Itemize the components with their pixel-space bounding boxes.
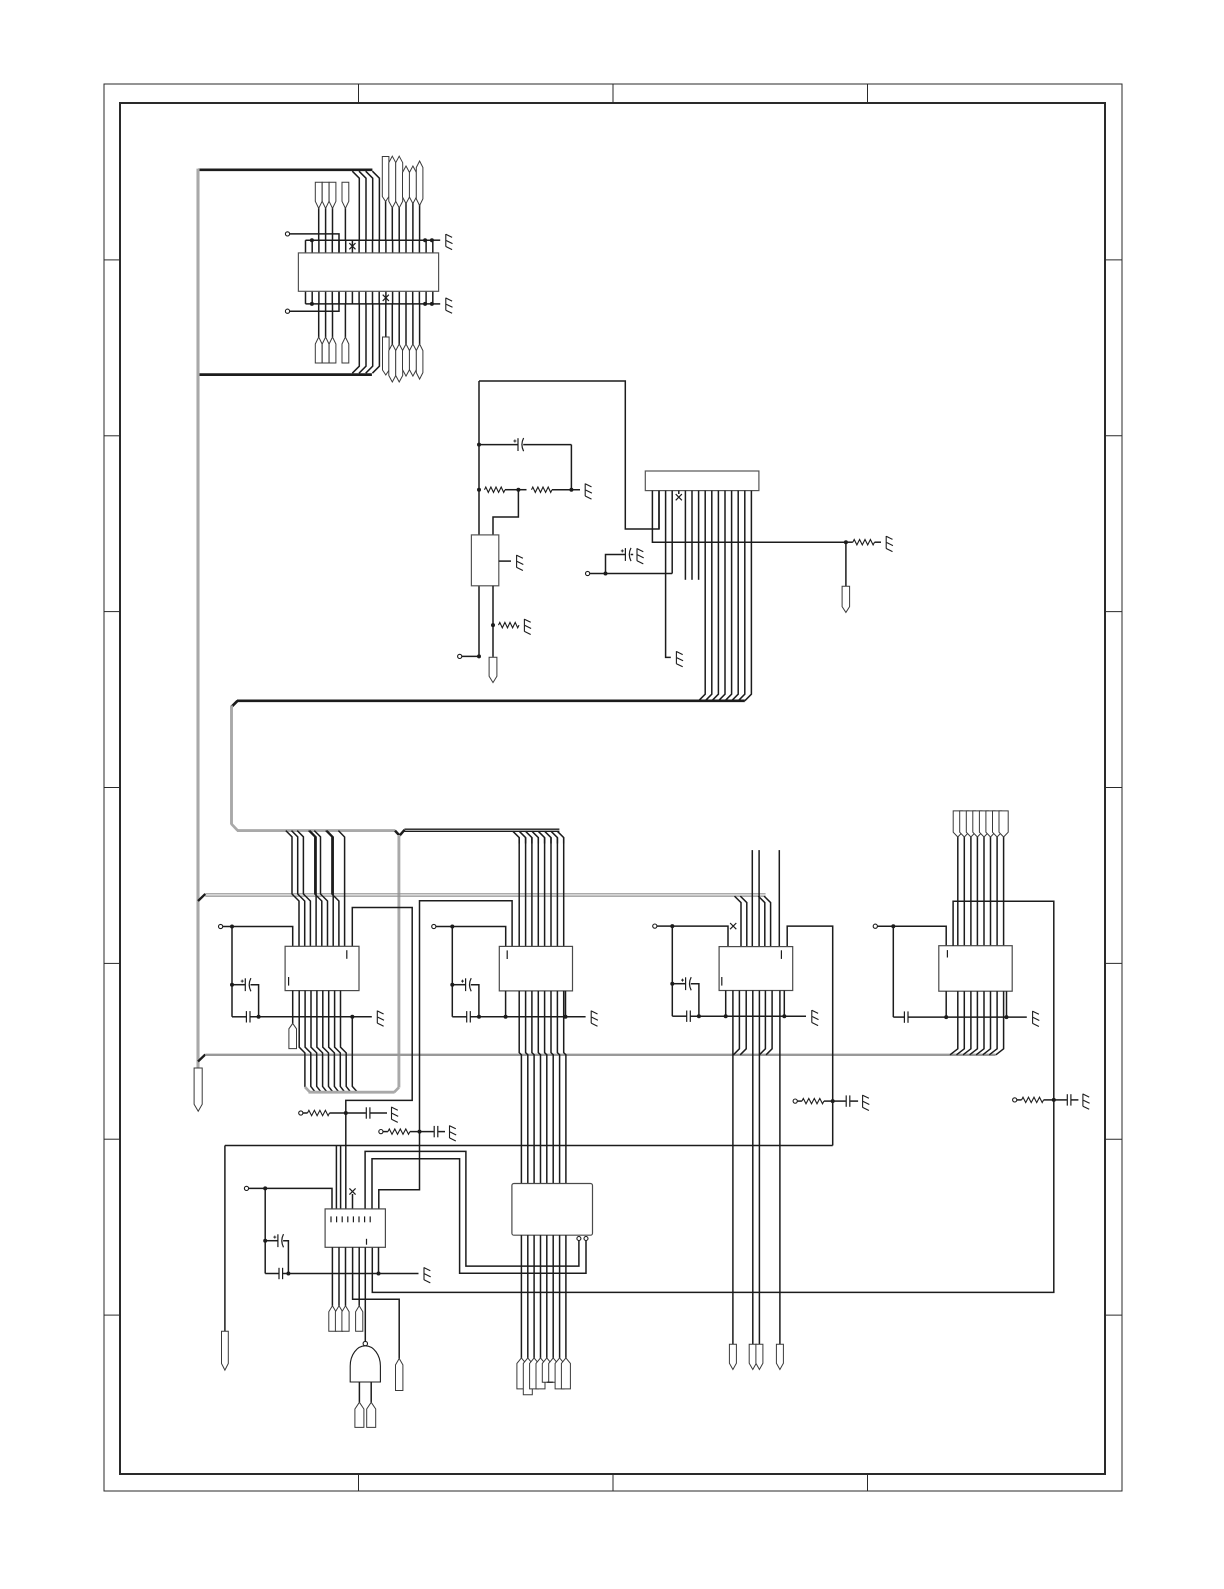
IC U4 <box>719 947 793 991</box>
wire Q1 emitter down <box>492 586 494 656</box>
no-connect X marks at U1 <box>349 243 389 301</box>
flag on R4 net <box>842 542 850 612</box>
terminal T7 <box>653 924 673 928</box>
capacitor C14 polarized <box>263 1234 288 1273</box>
U4 pin1 tick <box>722 950 782 985</box>
CN1 pin1 wire long <box>652 491 846 543</box>
transistor Q1 block <box>471 535 498 586</box>
wires connector flags to U8 <box>958 837 1004 946</box>
wire main riser <box>478 381 480 656</box>
pull-up wire block D <box>891 924 946 946</box>
bus segment top horizontal <box>198 168 372 171</box>
data bus vertical <box>230 706 233 825</box>
terminal T4 with capacitor C2 and ground <box>586 548 673 576</box>
CN1 pin5 no-connect <box>676 491 682 501</box>
bus fan-in wires from U1 bottom pins <box>352 304 379 373</box>
wire U6 to gate <box>364 1247 366 1341</box>
capacitor C1 row <box>477 438 571 490</box>
RC filter 2 (R6 C11) <box>379 1125 456 1141</box>
output flags below U1 (left group) <box>315 304 349 363</box>
data bus horizontal lower <box>237 829 395 832</box>
connector CN1 <box>645 471 759 491</box>
terminal T1 wire to U1 top <box>285 232 339 253</box>
flags below U5 <box>517 1358 571 1395</box>
U1 top pin rail with ground <box>306 234 453 250</box>
capacitor C8 and ground rail block C <box>672 1010 818 1026</box>
net h1 long horizontal <box>225 1145 833 1147</box>
off-page flag at bus spine bottom <box>194 1068 202 1111</box>
net U4 to U6 loop <box>787 926 833 1145</box>
U8 bottom pins to gray bus <box>950 991 1004 1055</box>
wires bus to U2 top pins <box>286 831 345 947</box>
capacitor C9 and ground rail block D <box>893 1011 1039 1027</box>
U6 interior pin ticks <box>331 1216 370 1244</box>
net U2 to filter loop <box>346 908 412 1114</box>
net U8 wrap loop <box>372 901 1054 1292</box>
pull-up wire block C <box>670 924 728 947</box>
U5 bottom wires <box>521 1235 566 1358</box>
CN1 stub pins <box>685 491 698 580</box>
IC U1 <box>298 253 438 291</box>
capacitor C7 polarized <box>670 977 699 1016</box>
capacitor C5 polarized <box>450 978 479 1017</box>
no-connect X at U6 <box>349 1188 355 1209</box>
U6 bottom wires to flags <box>332 1247 359 1306</box>
U3 pin1 tick <box>506 950 508 959</box>
flag below U2 pin <box>289 991 297 1049</box>
IC U3 <box>499 946 572 991</box>
data bus corner <box>232 701 238 707</box>
U3 rail pins <box>506 991 566 1017</box>
U8 rail pins <box>946 991 1006 1017</box>
CN1 pin3 wire to ground <box>666 491 684 667</box>
no-connect X block C <box>730 923 736 929</box>
gray net lower <box>205 1054 995 1056</box>
wire R junction to Q1 <box>493 490 518 535</box>
CN1 bus pins into data bus <box>699 491 752 701</box>
bus fan-out wires to U1 top pins <box>352 171 379 240</box>
U1 bottom pin rail with ground <box>306 298 453 314</box>
data bus corner lower <box>232 824 238 831</box>
wires bus pair to U3 top <box>519 838 564 947</box>
capacitor C6 and ground rail block B <box>452 1011 598 1027</box>
terminal T2 wire to U1 bottom <box>285 291 339 313</box>
U2 pin1 tick <box>289 950 347 985</box>
U5 inverted outputs <box>577 1237 588 1241</box>
RC filter 4 (R8 C13) <box>1013 1094 1090 1110</box>
U4 rail pins <box>726 991 785 1017</box>
IC U2 <box>285 946 359 990</box>
flag below Q1 <box>489 656 497 683</box>
wire block A cap branch <box>231 927 233 1017</box>
CN1 pin4 wire <box>671 491 673 574</box>
resistor R4 with ground <box>844 536 893 552</box>
RC filter 1 (R5 C10) <box>299 1107 399 1123</box>
net h1 left leg to flag <box>222 1146 229 1371</box>
bus pair to U3 <box>404 829 559 831</box>
pull-up wire block B <box>450 925 505 947</box>
input flags above U1 (left group) <box>315 182 349 240</box>
U6 gnd rail pin <box>378 1247 380 1273</box>
flags below U4 nets <box>729 1344 783 1369</box>
bus riser gray <box>397 835 400 1088</box>
Q1 tab ground <box>499 555 524 571</box>
capacitor C15 and ground rail U6 <box>265 1267 431 1283</box>
wires U2 bottom to loop bus <box>299 991 357 1093</box>
U8 pin1 tick <box>946 950 948 957</box>
capacitor C4 and ground rail block A <box>232 1011 384 1027</box>
drawing frame with zone ticks <box>104 84 1122 1491</box>
capacitor C3 polarized <box>230 978 259 1017</box>
pull-up wire U6 <box>263 1186 332 1209</box>
terminal T9 <box>244 1186 265 1190</box>
net U6 to flag right <box>353 1247 403 1390</box>
data bus horizontal <box>237 699 745 702</box>
terminal T3 <box>458 654 481 658</box>
IC U8 <box>939 946 1012 992</box>
resistor R3 with ground <box>491 619 531 635</box>
signal flags above U1 (right group) <box>382 156 423 240</box>
terminal T6 <box>432 924 453 928</box>
U1 pin stubs <box>306 240 433 304</box>
bus entry stub to lower gray net <box>198 1055 205 1062</box>
flags below gate G1 <box>355 1382 376 1427</box>
RC2 feed net <box>420 901 513 1132</box>
net h1 drops to U6 <box>336 1146 340 1209</box>
RC filter 3 (R7 C12) <box>793 1095 869 1111</box>
CN1 pin2 wire <box>658 491 660 529</box>
wire U6 cap branch <box>264 1188 266 1273</box>
net U5 out2 staple <box>372 1159 586 1274</box>
wire V+ riser top <box>479 381 659 529</box>
net RC1 to U6 <box>345 1113 347 1209</box>
wires into U4 top <box>735 850 780 947</box>
IC U5 <box>512 1184 593 1236</box>
wires U3 bottom to U5 <box>519 991 566 1184</box>
connector flags above U8 <box>953 811 1008 837</box>
gray net pair upper <box>205 894 765 896</box>
loop bus gray <box>305 1087 399 1092</box>
net RC2 to U6 <box>379 1132 420 1209</box>
NAND gate G1 <box>350 1341 380 1382</box>
terminal T8 <box>873 924 893 928</box>
bus spine vertical left <box>196 169 199 1068</box>
flags below U6 <box>329 1306 363 1332</box>
resistors R1 R2 row with ground <box>477 484 592 500</box>
wire block B cap branch <box>451 927 453 1017</box>
wire block D cap branch <box>892 926 894 1017</box>
net U5 out1 staple <box>365 1151 579 1266</box>
pull-up wire block A <box>230 925 293 947</box>
U4 bottom pins to gray bus <box>733 991 772 1055</box>
signal flags below U1 (right group) <box>383 304 423 382</box>
bus entry stub to net pair <box>198 894 205 901</box>
IC U6 <box>325 1209 385 1247</box>
bus segment lower horizontal <box>198 373 372 376</box>
bus V junction <box>395 830 405 836</box>
U4 bottom long wires <box>733 991 780 1345</box>
terminal T5 <box>219 924 233 928</box>
wire block C cap branch <box>671 926 673 1016</box>
bus pair fan to U3 wires <box>513 831 564 843</box>
